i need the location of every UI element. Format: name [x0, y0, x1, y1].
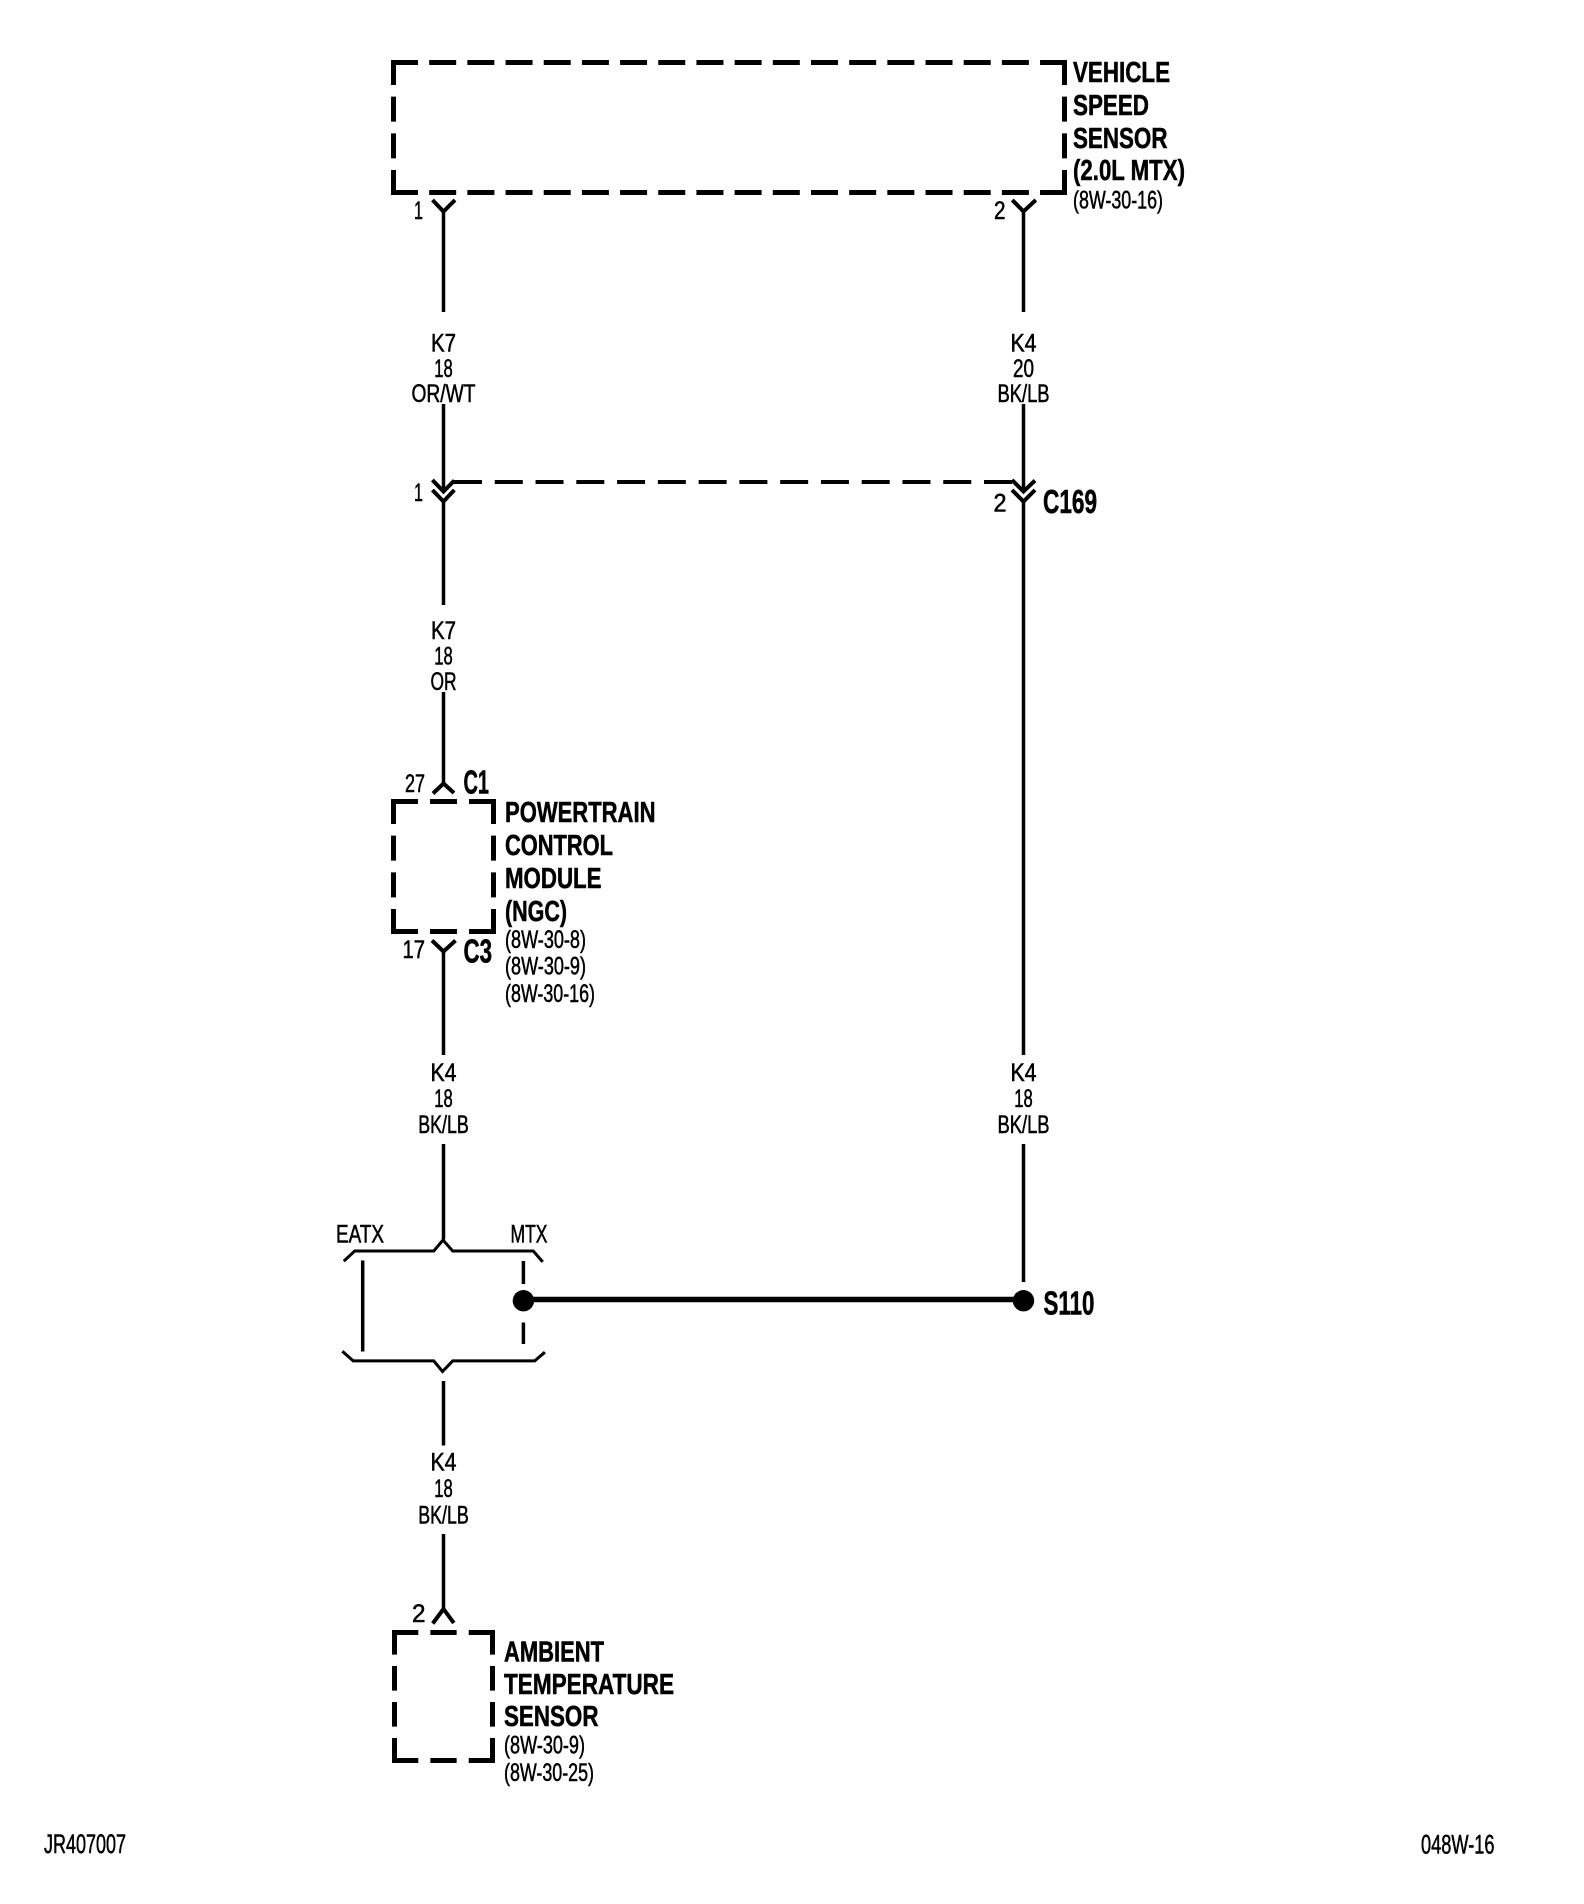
- splice bottom brace: [342, 1351, 545, 1371]
- svg-text:BK/LB: BK/LB: [998, 380, 1050, 408]
- wire to S110 splice: [1022, 1144, 1026, 1282]
- svg-text:POWERTRAIN: POWERTRAIN: [505, 797, 656, 829]
- svg-text:SPEED: SPEED: [1073, 90, 1149, 122]
- wire label K4 20 BK/LB: [998, 330, 1050, 409]
- svg-text:OR/WT: OR/WT: [412, 380, 476, 408]
- svg-text:MODULE: MODULE: [505, 863, 602, 895]
- wire label K4 18 BK/LB (bottom): [418, 1449, 469, 1530]
- svg-text:(8W-30-16): (8W-30-16): [1073, 187, 1163, 215]
- svg-text:2: 2: [994, 490, 1007, 518]
- svg-text:K4: K4: [431, 1449, 457, 1477]
- svg-text:K4: K4: [431, 1059, 457, 1087]
- MTX branch dashed wire: [522, 1261, 526, 1284]
- svg-text:C169: C169: [1043, 483, 1097, 520]
- svg-text:MTX: MTX: [511, 1221, 548, 1249]
- svg-text:EATX: EATX: [336, 1221, 384, 1249]
- svg-text:(8W-30-8): (8W-30-8): [505, 926, 586, 954]
- powertrain control module box (dashed): [391, 799, 496, 934]
- wire pin2 to label K4 20 BK/LB: [1022, 212, 1026, 313]
- wire label K7 18 OR/WT: [412, 330, 476, 409]
- splice bus wire (thick): [524, 1297, 1023, 1303]
- svg-text:OR: OR: [431, 668, 457, 696]
- svg-text:048W-16: 048W-16: [1421, 1830, 1495, 1860]
- wire C169 right to label K4 BK/LB: [1022, 502, 1026, 1056]
- EATX branch wire: [361, 1261, 365, 1352]
- wire to C169 right: [1022, 404, 1026, 489]
- wire label K7 18 OR: [431, 617, 457, 696]
- svg-text:2: 2: [994, 197, 1006, 225]
- svg-text:AMBIENT: AMBIENT: [504, 1637, 604, 1669]
- svg-text:SENSOR: SENSOR: [504, 1701, 599, 1733]
- svg-text:K7: K7: [431, 330, 456, 358]
- svg-text:SENSOR: SENSOR: [1073, 123, 1168, 155]
- svg-text:BK/LB: BK/LB: [418, 1111, 469, 1139]
- svg-text:C3: C3: [464, 933, 493, 970]
- svg-text:18: 18: [434, 1475, 453, 1503]
- wire C3 to label K4 BK/LB: [442, 952, 446, 1056]
- svg-text:CONTROL: CONTROL: [505, 830, 613, 862]
- svg-text:(8W-30-25): (8W-30-25): [504, 1759, 594, 1787]
- ambient temperature sensor box (dashed): [392, 1630, 495, 1763]
- svg-text:18: 18: [434, 355, 453, 383]
- svg-text:2: 2: [412, 1600, 426, 1628]
- wire pin1 to label K7 OR/WT: [442, 212, 446, 313]
- svg-text:BK/LB: BK/LB: [418, 1502, 469, 1530]
- wire label K4 18 BK/LB (right): [998, 1059, 1050, 1139]
- svg-text:(2.0L MTX): (2.0L MTX): [1073, 155, 1185, 187]
- svg-text:(NGC): (NGC): [505, 896, 567, 928]
- svg-text:VEHICLE: VEHICLE: [1073, 57, 1170, 89]
- wire to splice brace: [442, 1144, 446, 1240]
- wire to ambient temperature sensor pin 2: [442, 1534, 446, 1609]
- vehicle speed sensor box (dashed): [391, 60, 1067, 195]
- svg-text:27: 27: [405, 770, 425, 798]
- MTX junction dot: [513, 1290, 534, 1311]
- wire C169 to label K7 OR: [442, 502, 446, 606]
- ambient temperature sensor label: [504, 1637, 674, 1788]
- connector C169 dashed harness line: [454, 480, 1012, 484]
- wire to C169 left: [442, 404, 446, 489]
- svg-text:18: 18: [434, 643, 453, 671]
- svg-text:JR407007: JR407007: [44, 1829, 126, 1859]
- svg-text:18: 18: [434, 1085, 453, 1113]
- vehicle speed sensor label: [1073, 57, 1185, 215]
- wire label K4 18 BK/LB (left): [418, 1059, 469, 1139]
- svg-text:TEMPERATURE: TEMPERATURE: [504, 1669, 674, 1701]
- svg-text:S110: S110: [1044, 1285, 1095, 1322]
- wire brace to label K4: [442, 1381, 446, 1446]
- svg-text:(8W-30-9): (8W-30-9): [505, 953, 586, 981]
- S110 junction dot: [1013, 1290, 1034, 1311]
- svg-text:20: 20: [1013, 355, 1034, 383]
- wire to PCM pin 27: [442, 692, 446, 784]
- svg-text:K7: K7: [431, 617, 456, 645]
- svg-text:K4: K4: [1011, 330, 1037, 358]
- powertrain control module label: [505, 797, 656, 1008]
- svg-text:1: 1: [414, 197, 423, 225]
- svg-text:(8W-30-9): (8W-30-9): [504, 1732, 585, 1760]
- svg-text:1: 1: [414, 479, 423, 507]
- splice top brace: [344, 1240, 543, 1262]
- svg-text:C1: C1: [464, 764, 490, 801]
- svg-text:(8W-30-16): (8W-30-16): [505, 980, 595, 1008]
- svg-text:K4: K4: [1011, 1059, 1037, 1087]
- svg-text:18: 18: [1014, 1085, 1033, 1113]
- svg-text:17: 17: [403, 936, 426, 964]
- svg-text:BK/LB: BK/LB: [998, 1111, 1050, 1139]
